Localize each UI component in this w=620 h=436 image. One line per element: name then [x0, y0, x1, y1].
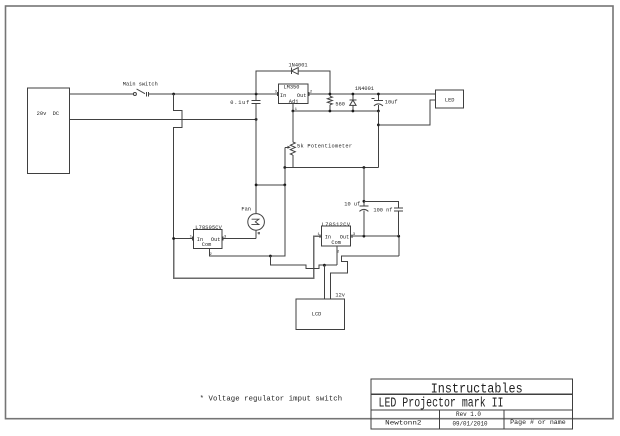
wire: 20v DC negative rail	[70, 118, 256, 120]
svg-text:In: In	[325, 234, 331, 240]
wire: feed to L7812 In (bottom run)	[174, 236, 322, 278]
node: C3/C4 top branch	[363, 200, 366, 203]
node: R1 top junction	[329, 93, 332, 96]
wire: 12v stair from com area to LCD and up to out rail	[331, 236, 400, 299]
svg-text:100 nf: 100 nf	[373, 207, 392, 213]
wire: 20v DC + to switch	[70, 93, 134, 95]
title block	[371, 379, 573, 429]
wire: connector fan/wiper	[256, 184, 285, 186]
source box 20v DC	[28, 88, 70, 173]
wire: vertical from Adj rail down to pot rail	[377, 111, 379, 168]
wire: switch to LM350 In	[149, 93, 278, 95]
svg-text:Out: Out	[211, 237, 221, 243]
wire: wiper chain down	[284, 168, 286, 257]
svg-text:LED Projector mark II: LED Projector mark II	[379, 396, 504, 411]
svg-text:5k Potentiometer: 5k Potentiometer	[297, 143, 352, 149]
node: Adj junction	[292, 110, 295, 113]
svg-text:Out: Out	[340, 234, 350, 240]
svg-text:Newtonn2: Newtonn2	[385, 419, 421, 426]
diode D1 1N4001 (bypass, pointing left)	[289, 63, 308, 75]
wire: branch to 100nf	[364, 201, 399, 208]
svg-text:Com: Com	[331, 240, 341, 246]
svg-text:LM350: LM350	[284, 85, 300, 91]
svg-text:Page # or name: Page # or name	[510, 419, 566, 426]
svg-text:LED: LED	[445, 98, 455, 104]
svg-text:12v: 12v	[335, 293, 345, 299]
wire: fan to L7805 Out	[222, 238, 256, 240]
svg-text:LCD: LCD	[312, 312, 322, 318]
wire: ground vertical down to fan	[255, 103, 257, 213]
wire: ground down to LCD	[323, 265, 325, 299]
wire: bypass loop over LM350	[256, 71, 330, 94]
IC U3 L78S12CV regulator	[318, 222, 356, 255]
node: C3 tap on pot rail	[363, 166, 366, 169]
capacitor C4 100 nf	[373, 207, 403, 236]
wire: LED return	[378, 100, 435, 125]
svg-text:560: 560	[335, 102, 345, 108]
svg-text:Rev 1.0: Rev 1.0	[456, 411, 481, 418]
wire: L7812 Out rail	[351, 235, 399, 237]
capacitor C1 0.1uf	[230, 94, 260, 119]
node: C2 top junction	[377, 93, 380, 96]
svg-text:Main switch: Main switch	[123, 82, 158, 88]
node: wiper on pot rail	[283, 166, 286, 169]
resistor R1 560	[327, 94, 345, 111]
svg-text:10uf: 10uf	[385, 99, 398, 105]
node: cap 0.1uf on In wire	[255, 93, 258, 96]
node: LED return branch	[377, 124, 380, 127]
wire: LM350 Out to LED	[308, 93, 436, 95]
IC U1 LM350 regulator	[275, 84, 313, 112]
wire: pot bottom rail	[285, 167, 379, 169]
LCD box	[296, 299, 345, 330]
svg-text:Adj: Adj	[289, 99, 299, 105]
node: R1 bottom junction	[329, 110, 332, 113]
svg-text:1N4001: 1N4001	[355, 86, 374, 92]
node: wiper chain junction	[283, 184, 286, 187]
diode D2 1N4001 (vertical, cathode up)	[349, 86, 374, 111]
wire: LM350 Adj stub	[292, 103, 294, 111]
wire: L7812 Com stub down	[336, 246, 338, 265]
node: C4 on 12v out rail	[397, 235, 400, 238]
svg-text:Fan: Fan	[241, 207, 251, 213]
svg-text:20v: 20v	[37, 111, 47, 117]
svg-text:10 uf: 10 uf	[344, 202, 360, 208]
wire: L7805 Com stub and ground run	[209, 185, 284, 256]
node: D2 top junction	[352, 93, 355, 96]
wire: L7805 In from feed	[174, 238, 194, 240]
node: C2 bottom junction	[377, 110, 380, 113]
svg-text:L78S05CV: L78S05CV	[195, 225, 222, 231]
svg-text:* Voltage regulator imput swit: * Voltage regulator imput switch	[200, 396, 343, 404]
svg-text:L78S12CV: L78S12CV	[322, 222, 351, 228]
node: D2 bottom junction	[352, 110, 355, 113]
capacitor C3 10 uf (polarized)	[344, 168, 368, 237]
svg-text:In: In	[280, 93, 286, 99]
wire: branch down with hop over negative rail, to bottom feed and up to L7812 In	[174, 94, 183, 239]
node: switch branch junction	[172, 93, 175, 96]
IC U2 L78S05CV regulator	[190, 225, 227, 257]
wire: Adj rail	[293, 110, 379, 112]
potentiometer VR1 5k	[285, 111, 352, 168]
svg-text:Com: Com	[202, 242, 212, 248]
svg-text:0.1uf: 0.1uf	[230, 100, 249, 106]
LED box	[436, 90, 464, 108]
node: negative rail joins ground vertical	[255, 118, 258, 121]
svg-text:Instructables: Instructables	[431, 382, 523, 397]
motor M1 Fan	[241, 207, 264, 239]
node: LCD/ground junction	[323, 264, 326, 267]
wire: ground branch down, hop over feed riser, to LCD node	[270, 256, 336, 268]
node: C3 on 12v out rail	[363, 235, 366, 238]
node: fan branch junction	[255, 184, 258, 187]
svg-text:09/01/2010: 09/01/2010	[453, 421, 488, 428]
svg-text:DC: DC	[53, 111, 59, 117]
node: ground branch	[269, 255, 272, 258]
node: L7805 In tap on feed	[172, 237, 175, 240]
switch S1 Main switch	[123, 82, 158, 97]
capacitor C2 10uf (polarized)	[372, 94, 398, 111]
